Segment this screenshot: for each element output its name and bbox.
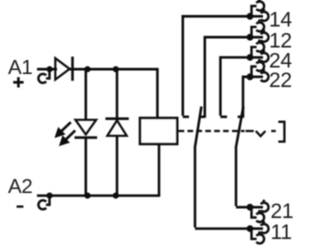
terminal clamp A2 [38,196,49,210]
wire terminal 12 run [205,37,250,118]
LED arrow 2 [61,130,75,144]
terminal 22 inline clamp wire [250,76,263,79]
terminal 12 dot [247,34,254,41]
terminal 22 offset clamp [252,59,265,77]
svg-text:A2: A2 [8,175,32,198]
terminal 11 dot [247,225,254,232]
contact lever K1-2 [236,107,243,207]
terminal 21 dot [247,204,254,211]
wire freewheel branch upper [116,69,119,119]
terminal 14 inline clamp [261,9,269,21]
contact 22 seat [238,116,243,119]
junction dot A2 [47,193,53,199]
mechanical link dashed [179,130,245,132]
wire terminal 22 run [243,77,250,118]
wire terminal 11 run [195,227,250,230]
junction dot bottom LED branch [84,193,90,199]
terminal 12 inline clamp [261,30,269,42]
wire terminal 24 run [220,57,249,115]
wire LED branch lower [85,138,88,196]
wire A1 stub [37,68,57,71]
contact 14 seat [183,116,189,119]
manual override notch [256,131,266,136]
svg-text:A1: A1 [8,56,32,79]
terminal 14 offset clamp [252,0,265,16]
terminal 14 dot [247,13,254,20]
node A1 plus sign [13,77,23,87]
junction dot top freewheel branch [113,66,119,72]
wire coil top feed [156,68,159,118]
diode D3 cathode bar [105,117,128,120]
node A2 minus sign [17,205,24,207]
junction dot top LED branch [84,66,90,72]
contact 12 seat [200,116,205,119]
LED D2 triangle [75,120,96,135]
contact lever K1-1 [195,107,201,228]
terminal 24 offset clamp [252,40,265,58]
wire terminal 14 run [183,16,250,115]
terminal 24 inline clamp [261,50,269,62]
wire freewheel branch lower [116,136,119,196]
diode D1 series [55,58,69,79]
terminal 11 inline clamp wire [250,227,263,230]
LED arrow 1 [57,122,71,136]
terminal 12 offset clamp [252,20,265,38]
terminal 22 inline clamp [261,69,269,81]
terminal clamp A1 [38,69,49,83]
wire A2 bottom horizontal [37,194,160,197]
diode D3 triangle [107,120,126,136]
terminal 21 inline clamp [261,200,269,212]
junction dot bottom freewheel branch [113,193,119,199]
terminal 14 inline clamp wire [250,15,263,18]
terminal 22 dot [247,73,254,80]
terminal 24 inline clamp wire [250,56,263,59]
svg-text:22: 22 [269,69,292,92]
mechanical link dashed right [271,130,276,132]
LED D2 cathode bar [75,136,98,139]
terminal 11 offset clamp [252,229,265,244]
wire top horizontal [69,68,159,71]
terminal 21 offset clamp [252,207,265,222]
wire terminal 21 run [236,206,250,209]
svg-text:14: 14 [269,9,292,32]
terminal 12 inline clamp wire [250,36,263,39]
terminal 11 inline clamp [261,221,269,233]
junction dot A1 [47,66,53,72]
mechanical link last dash [246,130,254,132]
relay coil K1 [140,118,177,144]
wire LED branch upper [85,69,88,120]
wire coil bottom feed [158,144,161,196]
diode D1 cathode bar [71,57,74,81]
manual override bracket [278,121,284,143]
contact 24 seat [220,116,227,119]
svg-text:11: 11 [271,221,292,244]
terminal 24 dot [247,54,254,61]
svg-text:21: 21 [271,200,294,223]
terminal 21 inline clamp wire [250,206,263,209]
